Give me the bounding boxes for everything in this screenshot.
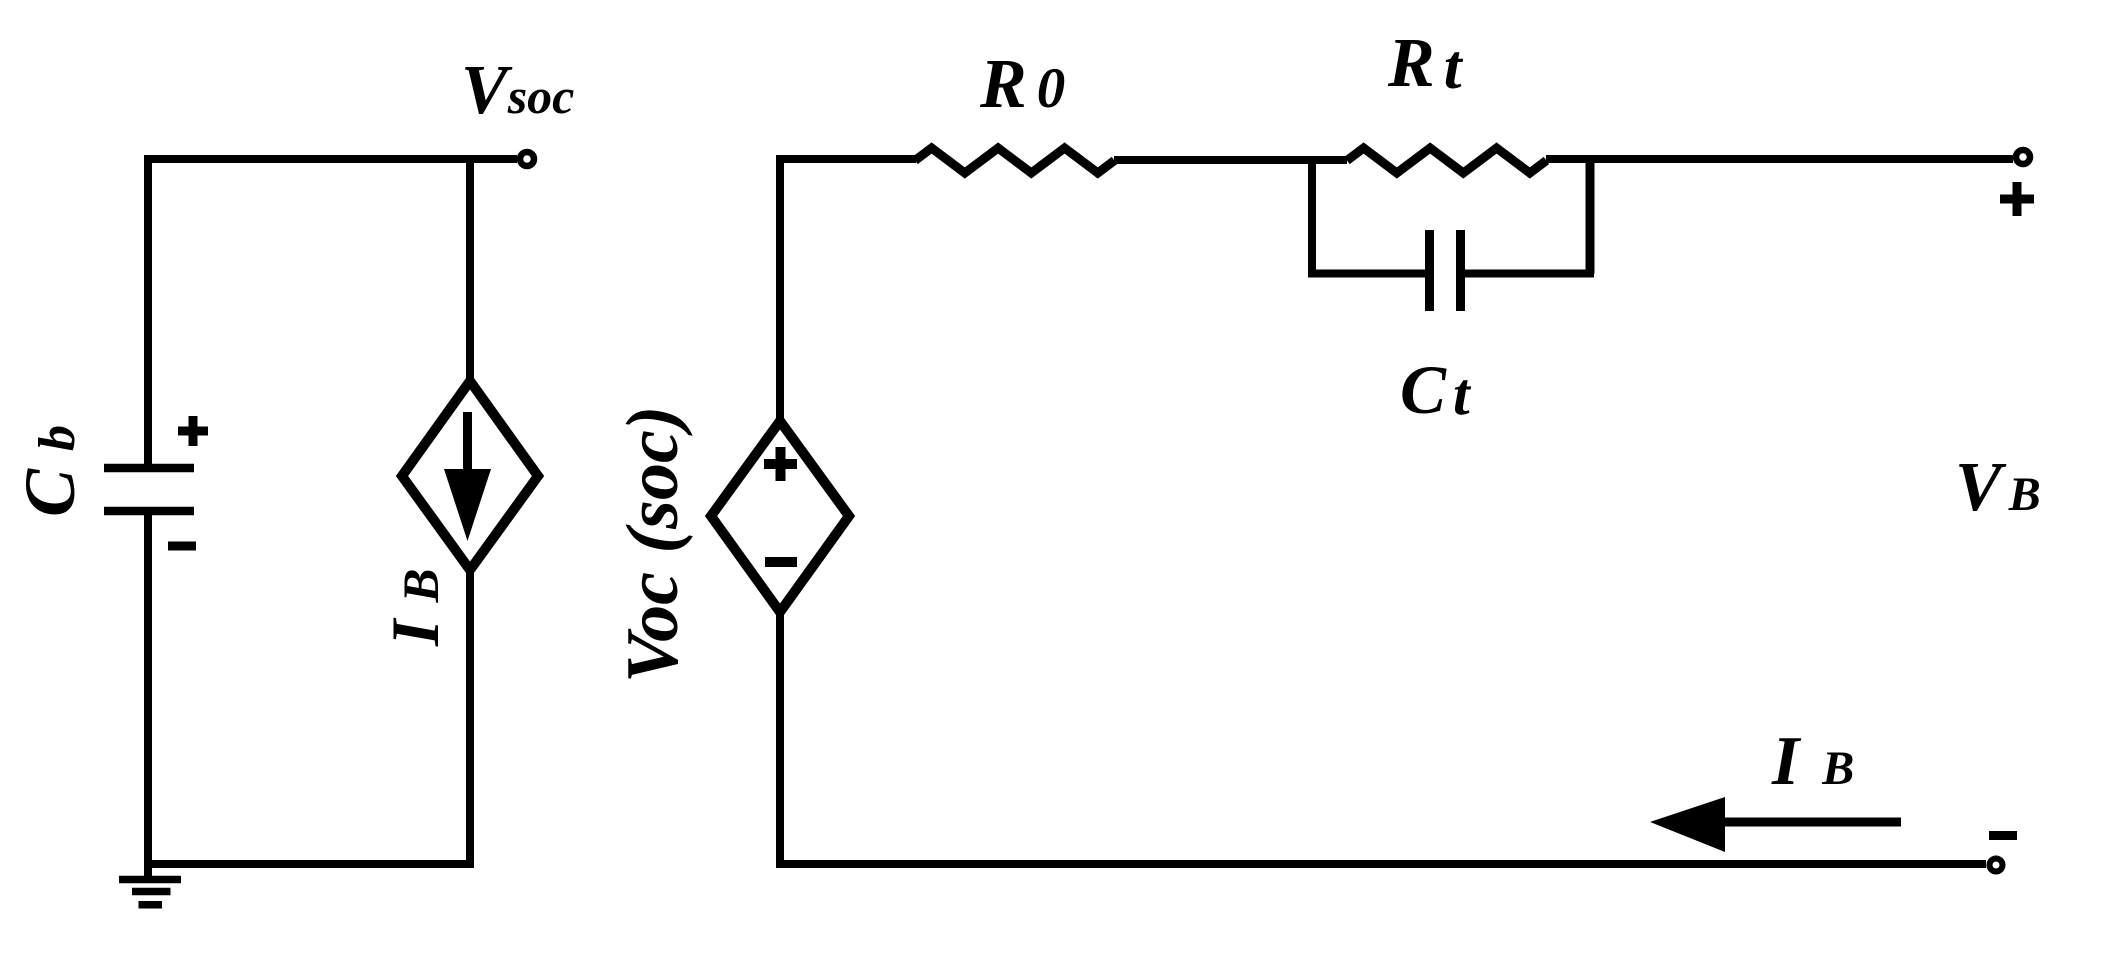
- resistor R0 zigzag: [915, 148, 1114, 173]
- capacitor Cb minus polarity mark: [168, 542, 196, 551]
- wire: parallel block right vertical: [1586, 156, 1595, 274]
- capacitor Cb plus polarity mark: [178, 416, 208, 446]
- resistor Rt zigzag: [1347, 148, 1546, 173]
- voltage source plus mark: [764, 447, 797, 481]
- output plus mark: [2000, 182, 2034, 216]
- wire: left circuit top horizontal (Cb top to Vsoc terminal): [148, 155, 517, 163]
- capacitor Ct left plate: [1425, 230, 1434, 311]
- voltage source minus mark: [765, 557, 797, 567]
- wire: top horizontal from corner to R0: [776, 155, 916, 163]
- output minus mark: [1989, 831, 2017, 840]
- capacitor Ct right plate: [1456, 230, 1465, 311]
- wire: top horizontal from Rt to output terminal: [1546, 155, 2013, 163]
- wire: vertical from voltage source to bottom wire: [776, 611, 784, 868]
- wire: vertical from top corner down to voltage source: [776, 155, 784, 422]
- node Vsoc terminal circle: [520, 152, 534, 166]
- node output - terminal circle: [1990, 859, 2003, 872]
- svg-text:R0: R0: [979, 46, 1065, 123]
- current source arrow: [463, 412, 472, 472]
- wire: parallel block bottom right horizontal: [1465, 270, 1594, 278]
- node output + terminal circle: [2016, 150, 2030, 164]
- svg-text:Ct: Ct: [1400, 352, 1472, 428]
- ground: [119, 880, 181, 905]
- wire: left vertical from top wire down to Cb top plate: [144, 155, 152, 468]
- capacitor Cb bottom plate: [104, 507, 194, 516]
- wire: between R0 and Rt: [1114, 156, 1347, 164]
- svg-text:Voc (soc): Voc (soc): [612, 406, 694, 683]
- wire: left circuit bottom horizontal: [148, 860, 470, 868]
- svg-text:Rt: Rt: [1387, 25, 1464, 102]
- dependent voltage source diamond: [711, 421, 849, 612]
- current IB arrow (bottom right): [1725, 818, 1901, 827]
- wire: vertical from current source to bottom wire: [466, 570, 474, 868]
- wire: vertical from top wire down to current source: [466, 159, 474, 382]
- wire: parallel block bottom left horizontal: [1308, 270, 1425, 278]
- wire: left vertical from Cb bottom plate to ground: [144, 511, 152, 876]
- wire: bottom horizontal of right circuit: [780, 860, 1986, 868]
- capacitor Cb top plate: [104, 464, 194, 473]
- wire: parallel block left vertical: [1308, 156, 1316, 274]
- current source IB diamond: [402, 381, 538, 570]
